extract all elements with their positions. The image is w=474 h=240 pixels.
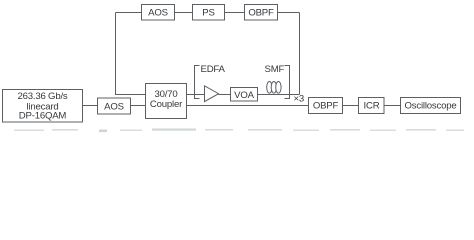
svg-text:Coupler: Coupler — [150, 99, 183, 110]
svg-text:OBPF: OBPF — [248, 8, 274, 19]
svg-text:×3: ×3 — [294, 94, 305, 105]
OBPF (loop) box — [245, 5, 278, 21]
coupler 30/70 box — [146, 84, 187, 119]
wire coupler to amplifier — [187, 94, 205, 96]
wire AOS(top) to PS — [175, 12, 193, 14]
wire top: left corner to AOS — [116, 12, 142, 14]
wire OBPF to ICR — [343, 105, 359, 107]
ICR box — [359, 98, 385, 114]
svg-text:VOA: VOA — [234, 90, 254, 101]
transmitter linecard box — [3, 90, 83, 123]
wire amplifier to VOA — [219, 94, 231, 96]
VOA box — [231, 88, 258, 102]
wire ICR to Oscilloscope — [385, 105, 401, 107]
svg-text:PS: PS — [202, 8, 214, 19]
wire linecard to AOS — [83, 105, 98, 107]
svg-text:Oscilloscope: Oscilloscope — [405, 101, 457, 112]
svg-text:ICR: ICR — [364, 101, 380, 112]
svg-text:EDFA: EDFA — [201, 64, 226, 75]
wire OBPF(top) to right corner — [278, 12, 300, 14]
EDFA span bracket left — [195, 66, 200, 99]
faint cropped caption remnants along bottom edge — [14, 129, 464, 133]
svg-text:SMF: SMF — [265, 64, 285, 75]
AOS (transmitter side) box — [98, 98, 131, 114]
wire coupler lower output to OBPF — [187, 105, 309, 107]
svg-text:DP-16QAM: DP-16QAM — [19, 111, 67, 122]
wire loop right vertical — [299, 13, 301, 95]
svg-text:OBPF: OBPF — [313, 101, 339, 112]
span bracket right — [285, 66, 290, 99]
svg-text:AOS: AOS — [148, 8, 168, 19]
SMF fiber coil — [267, 82, 281, 94]
OBPF (receiver) box — [309, 98, 343, 114]
wire AOS to coupler — [131, 105, 146, 107]
svg-text:AOS: AOS — [104, 102, 124, 113]
amplifier triangle (EDFA) — [205, 86, 219, 102]
wire PS to OBPF(top) — [225, 12, 245, 14]
wire loop left vertical — [116, 13, 146, 95]
PS box — [193, 5, 225, 21]
wire VOA to loop corner (under SMF coil) — [258, 94, 300, 96]
Oscilloscope box — [401, 98, 461, 114]
AOS (loop, top) box — [142, 5, 175, 21]
